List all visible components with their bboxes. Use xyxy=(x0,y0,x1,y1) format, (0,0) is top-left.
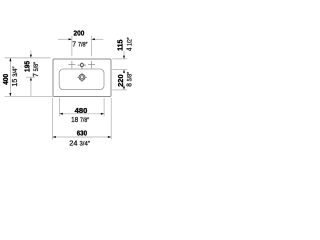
svg-text:200: 200 xyxy=(74,29,85,38)
basin outer rim (top view) xyxy=(53,59,111,97)
upper leader with down arrow xyxy=(123,51,125,59)
extension line top left xyxy=(5,57,51,59)
tick bowl front edge xyxy=(112,89,127,91)
drain symbol xyxy=(77,73,86,82)
svg-text:630: 630 xyxy=(77,128,87,137)
lower leader with down arrow xyxy=(123,85,125,90)
svg-text:400: 400 xyxy=(1,74,10,85)
tick top edge xyxy=(112,58,127,60)
dim line 400 xyxy=(9,58,11,96)
extension line bowl right xyxy=(103,98,105,117)
dim line 630 xyxy=(53,136,112,138)
centre tap hole xyxy=(78,62,86,68)
extension line outer left xyxy=(52,98,54,140)
svg-text:480: 480 xyxy=(75,106,88,115)
extension line bottom left xyxy=(5,95,53,97)
upper leader with down arrow xyxy=(30,51,32,58)
extension line bowl left xyxy=(59,98,61,117)
dim leader left with arrow xyxy=(58,38,72,40)
dim line 480 xyxy=(60,113,105,115)
left tap hole cross xyxy=(68,61,75,68)
dim leader right with arrow xyxy=(92,38,104,40)
svg-text:195: 195 xyxy=(22,61,31,72)
tick bowl rear edge xyxy=(112,68,127,70)
lower leader with up arrow xyxy=(30,77,32,96)
extension line left tap xyxy=(71,36,73,56)
inner bowl xyxy=(59,69,104,90)
right tap hole cross xyxy=(88,61,95,68)
svg-text:115: 115 xyxy=(116,40,125,51)
extension line right tap xyxy=(91,36,93,56)
middle leader with up arrow xyxy=(123,69,125,73)
extension line outer right xyxy=(110,98,112,140)
tick at drain level xyxy=(26,76,35,78)
